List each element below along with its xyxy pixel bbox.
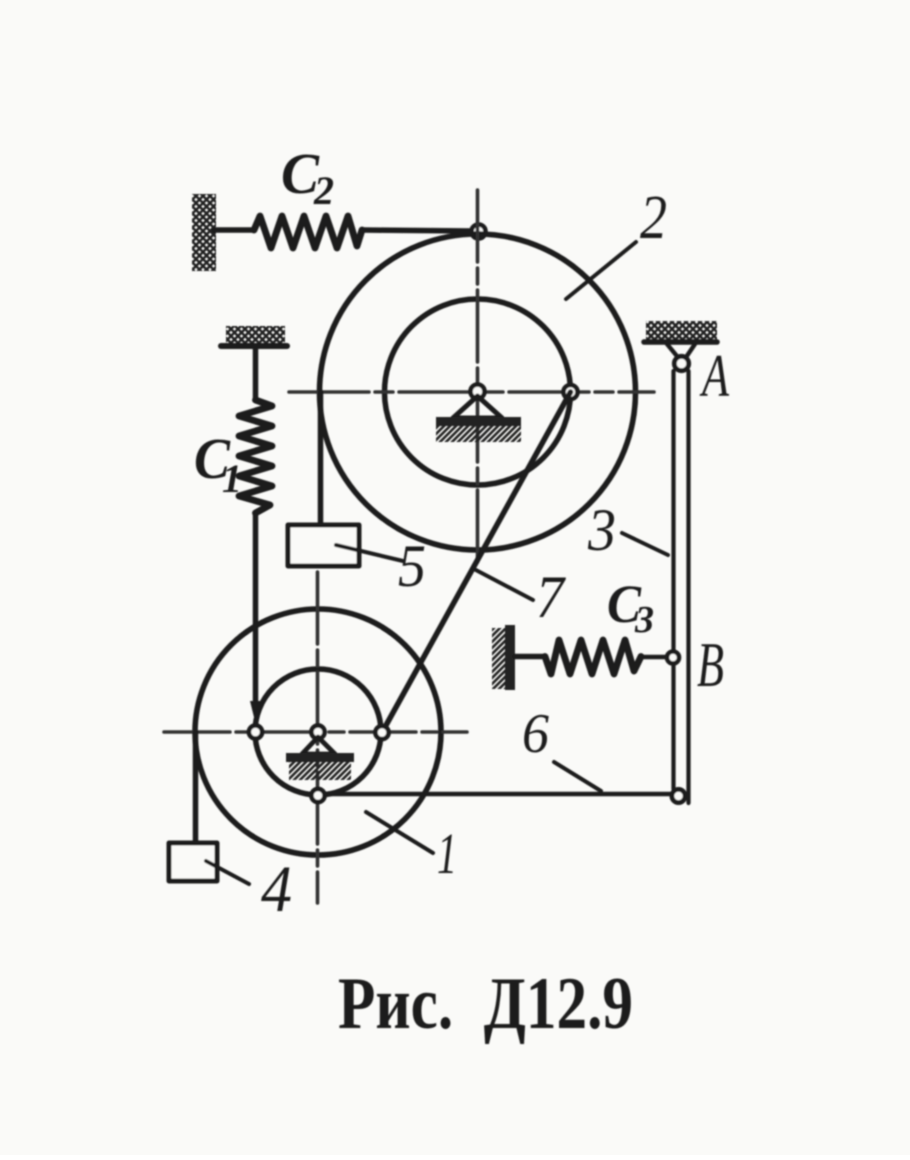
centerline vertical pulley 2	[476, 190, 480, 568]
label 7 leader	[474, 569, 533, 600]
wire wall to spring C3	[515, 654, 545, 660]
spring C2	[254, 216, 362, 248]
label 1 leader	[366, 812, 433, 853]
node: top attachment circle on pulley 2	[472, 225, 486, 239]
label 2	[640, 184, 667, 252]
ceiling anchor of rod 3	[644, 321, 717, 342]
svg-text:6: 6	[522, 703, 549, 765]
hanger triangle of rod 3	[667, 344, 695, 358]
cord pulley 2 to block 5	[318, 392, 324, 525]
spring C3	[545, 640, 641, 674]
cord pulley 1 to block 4	[193, 732, 199, 843]
label 4	[261, 853, 292, 926]
label 4 leader	[206, 861, 249, 884]
pulley 2 inner circle	[385, 299, 571, 485]
svg-text:5: 5	[398, 533, 426, 599]
ground hatch pulley 2	[436, 426, 521, 442]
cord 6 from pulley 1 bottom node to rod bottom	[325, 792, 672, 797]
wire spring C2 to pulley 2 top	[362, 230, 470, 231]
centerline horizontal pulley 2	[289, 390, 654, 394]
pivot circle pulley 2	[471, 385, 485, 399]
svg-text:А: А	[699, 343, 729, 409]
pivot triangle pulley 1	[302, 737, 335, 754]
block 5	[288, 525, 359, 566]
wall anchor of spring C2	[192, 194, 216, 271]
label 6 leader	[554, 762, 601, 791]
rod 3 right line	[686, 371, 690, 803]
block 4	[169, 843, 217, 881]
ground bar pulley 2	[436, 417, 521, 426]
label A	[699, 343, 729, 409]
label 5 leader	[336, 545, 403, 561]
node: left attachment circle on pulley 1 inner step	[249, 725, 262, 738]
belt 7 from pulley 2 inner step to pulley 1 inner step	[382, 392, 571, 733]
label 3 leader	[622, 533, 668, 555]
svg-text:1: 1	[222, 456, 242, 501]
value label C2	[281, 141, 334, 213]
svg-text:3: 3	[587, 497, 616, 563]
rod 3 left line	[671, 371, 675, 789]
node A circle	[674, 356, 688, 370]
centerline horizontal pulley 1	[164, 730, 467, 734]
node: bottom attachment circle on pulley 1 inner step	[311, 789, 324, 802]
pulley 2 outer circle	[320, 234, 636, 550]
arrowhead on C1 wire	[250, 701, 261, 724]
svg-text:В: В	[697, 629, 724, 700]
caption	[338, 963, 633, 1045]
svg-text:3: 3	[634, 599, 654, 641]
svg-text:1: 1	[437, 821, 457, 886]
node: rod 3 bottom circle	[672, 789, 685, 802]
label 5	[398, 533, 426, 599]
svg-text:7: 7	[536, 564, 567, 630]
pulley 1 outer circle	[195, 609, 441, 855]
pulley 1 inner circle	[255, 669, 381, 795]
wire spring C1 to pulley 1 left node	[253, 513, 259, 704]
spring C1	[239, 400, 272, 513]
wall anchor of spring C3	[492, 625, 515, 690]
svg-text:4: 4	[261, 853, 292, 926]
label 7	[536, 564, 567, 630]
label 2 leader	[566, 242, 636, 299]
svg-text:2: 2	[313, 168, 334, 213]
label 1	[437, 821, 457, 886]
label 6	[522, 703, 549, 765]
pivot circle pulley 1	[311, 725, 324, 738]
ground bar pulley 1	[286, 753, 354, 762]
value label C1	[194, 426, 242, 501]
centerline vertical pulley 1	[316, 572, 320, 903]
ceiling anchor of spring C1	[221, 326, 287, 346]
wire wall to spring C2	[214, 227, 254, 233]
wire spring C3 to node B	[641, 655, 666, 660]
label 3	[587, 497, 616, 563]
node: right attachment circle on pulley 1 inner step	[375, 726, 388, 739]
value label C3	[607, 574, 654, 641]
node: right attachment circle on pulley 2 inner step	[564, 385, 578, 399]
node B circle	[667, 652, 679, 664]
ground hatch pulley 1	[289, 762, 351, 780]
pivot triangle pulley 2	[453, 396, 502, 418]
svg-text:2: 2	[640, 184, 667, 252]
svg-text:Рис. Д12.9: Рис. Д12.9	[338, 963, 633, 1045]
label B	[697, 629, 724, 700]
wire ceiling to spring C1	[253, 348, 259, 400]
